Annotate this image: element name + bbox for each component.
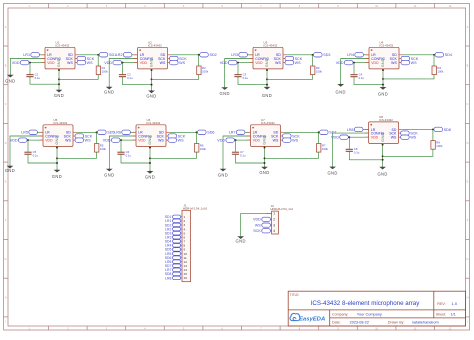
junction SD2 / R2 — [198, 54, 200, 56]
net label SCK (U4) — [401, 56, 419, 61]
svg-text:LR4: LR4 — [347, 53, 354, 57]
wire U4 GND pin to ground — [382, 71, 384, 87]
wire U6 GND pin to ground — [149, 149, 151, 171]
wire R5 to U5 ground stem — [57, 152, 97, 158]
svg-text:HDR-M-2.54_1x16: HDR-M-2.54_1x16 — [183, 207, 207, 211]
svg-text:VDD: VDD — [255, 61, 263, 65]
svg-text:ICS-43432: ICS-43432 — [379, 118, 393, 122]
pin 1 of J1 with net label SD1 — [165, 215, 186, 219]
capacitor C3 0.1u — [234, 63, 248, 80]
junction U8 GND pin — [382, 144, 384, 146]
ground (U8 GND) — [377, 166, 387, 176]
svg-text:GND: GND — [265, 58, 269, 67]
ground (J2 pin 1) — [236, 236, 246, 244]
svg-text:0.1u: 0.1u — [240, 153, 246, 157]
net label LR6 — [114, 130, 130, 135]
wire U2 GND pin to ground — [151, 71, 153, 90]
svg-text:0.1u: 0.1u — [127, 76, 133, 80]
svg-text:WS: WS — [411, 61, 417, 65]
junction ground stem / C6 rail — [149, 162, 151, 164]
svg-text:VDD: VDD — [371, 136, 379, 140]
svg-text:ICS-43432: ICS-43432 — [148, 43, 162, 47]
pin 12 of J1 with net label LR6 — [165, 260, 187, 264]
svg-text:Your Company: Your Company — [357, 313, 382, 317]
svg-text:100k: 100k — [202, 70, 209, 74]
svg-text:WS: WS — [160, 61, 166, 65]
connector J1 HDR-M-2.54_1x16 — [182, 204, 207, 282]
svg-text:16: 16 — [184, 276, 188, 280]
resistor R2 100k — [197, 55, 209, 75]
revision — [437, 301, 458, 306]
svg-text:GND: GND — [146, 94, 156, 99]
svg-text:GND: GND — [104, 89, 114, 94]
svg-text:GND: GND — [336, 89, 346, 94]
net label WS (U6) — [168, 138, 184, 143]
svg-text:GND: GND — [145, 175, 155, 180]
svg-text:LR6: LR6 — [114, 131, 121, 135]
svg-text:100k: 100k — [436, 144, 443, 148]
resistor R6 100k — [195, 132, 207, 152]
op-amp style IC U8 ICS-43432 — [365, 115, 402, 146]
op-amp style IC U2 ICS-43432 — [134, 40, 171, 71]
junction VDD / C7 — [235, 139, 237, 141]
svg-text:WS: WS — [85, 139, 91, 143]
resistor R5 100k — [95, 132, 107, 152]
junction U6 GND pin — [149, 147, 151, 149]
junction SD7 / R7 — [318, 131, 320, 133]
wire R7 to U7 ground stem — [265, 152, 319, 158]
svg-text:VDD: VDD — [220, 61, 228, 65]
wire C8 to ground rail — [349, 151, 382, 160]
junction VDD / C5 — [27, 139, 29, 141]
svg-text:GND: GND — [381, 58, 385, 67]
net label VDD (U2) — [104, 60, 121, 65]
junction ground stem / C4 rail — [382, 84, 384, 86]
svg-text:D: D — [467, 142, 469, 145]
capacitor C4 0.1u — [350, 63, 364, 80]
pin 1 of J2 — [267, 212, 276, 216]
svg-text:WS: WS — [391, 136, 397, 140]
wire R8 to U8 ground stem — [383, 149, 433, 156]
wire U8 SD output — [402, 128, 434, 130]
wire U5 SD output — [77, 131, 98, 133]
svg-text:WS: WS — [178, 139, 184, 143]
wire R6 to U6 ground stem — [150, 152, 197, 158]
svg-text:WS: WS — [87, 61, 93, 65]
net label SD6 — [198, 130, 215, 135]
wire U6 SD output — [170, 131, 198, 133]
ground (U2 CONFIG) — [104, 86, 114, 94]
date row — [332, 321, 439, 325]
svg-text:VDD: VDD — [371, 61, 379, 65]
op-amp style IC U1 ICS-43432 — [41, 40, 78, 71]
svg-text:VDD: VDD — [138, 139, 146, 143]
svg-text:WS: WS — [255, 224, 261, 228]
junction U5 GND pin — [56, 147, 58, 149]
capacitor C2 0.1u — [119, 63, 133, 80]
svg-text:WS: WS — [410, 136, 416, 140]
wire C2 to ground rail — [123, 77, 152, 85]
net label WS (U8) — [401, 135, 417, 140]
svg-text:GND: GND — [54, 93, 64, 98]
junction ground stem / R6 rail — [149, 157, 151, 159]
op-amp style IC U5 ICS-43432 — [39, 118, 76, 149]
pin 7 of J1 with net label SD4 — [165, 240, 186, 244]
svg-text:2: 2 — [273, 218, 275, 222]
resistor R4 100k — [432, 55, 444, 75]
ground (U3 GND) — [262, 86, 272, 98]
company row — [332, 313, 382, 317]
svg-text:WS: WS — [179, 61, 185, 65]
wire C6 to ground rail — [121, 154, 150, 163]
junction ground stem / C1 rail — [58, 83, 60, 85]
wire LR7 net label to U7 LR pin — [245, 131, 251, 133]
pin 15 of J1 with net label SD8 — [165, 272, 187, 276]
wire LR3 net label to U3 LR pin — [247, 54, 253, 56]
op-amp style IC U4 ICS-43432 — [365, 40, 402, 71]
svg-text:VDD: VDD — [253, 139, 261, 143]
capacitor C5 0.1u — [24, 140, 38, 157]
junction VDD / C8 — [348, 136, 350, 138]
svg-text:WS: WS — [273, 139, 279, 143]
svg-text:VDD: VDD — [47, 61, 55, 65]
svg-text:VDD: VDD — [336, 61, 344, 65]
net label WS (U1) — [77, 60, 93, 65]
svg-text:ICS-43432: ICS-43432 — [261, 121, 275, 125]
svg-text:VDD: VDD — [104, 61, 112, 65]
svg-text:GND: GND — [148, 135, 152, 144]
pin 2 of J1 with net label LR1 — [165, 219, 185, 223]
pin 9 of J1 with net label SD5 — [165, 248, 186, 252]
svg-text:GND: GND — [5, 78, 15, 83]
net label SD4 — [435, 53, 452, 58]
ground (U1 GND) — [54, 89, 64, 98]
wire U8 GND pin to ground — [382, 146, 384, 167]
svg-text:ICS-43432 8-element microphone: ICS-43432 8-element microphone array — [311, 300, 421, 307]
title text — [290, 293, 420, 307]
wire C7 to ground rail — [236, 154, 265, 163]
pin 6 of J1 with net label LR3 — [165, 236, 185, 240]
ground (U7 GND) — [259, 166, 269, 175]
wire LR6 net label to U6 LR pin — [130, 131, 136, 133]
wire C4 to ground rail — [354, 77, 383, 85]
svg-text:GND: GND — [150, 58, 154, 67]
wire VDD net label to U4 VDD pin — [353, 62, 369, 64]
capacitor C8 0.1u — [346, 137, 360, 154]
wire J2 pin 1 to ground — [241, 213, 272, 235]
svg-text:D: D — [5, 142, 7, 145]
ground (U1 CONFIG) — [5, 74, 15, 83]
svg-text:VDD: VDD — [12, 61, 20, 65]
wire VDD net label to U6 VDD pin — [120, 139, 136, 141]
wire LR8 net label to U8 LR pin — [363, 128, 369, 130]
svg-text:GND: GND — [5, 168, 15, 173]
junction U7 GND pin — [264, 147, 266, 149]
wire U4 SD output — [403, 54, 435, 56]
ground (U8 CONFIG) — [327, 166, 337, 175]
svg-text:REV:: REV: — [437, 302, 445, 306]
wire C5 to ground rail — [28, 154, 57, 163]
svg-text:LR8: LR8 — [165, 276, 171, 280]
wire VDD net label to U1 VDD pin — [29, 62, 45, 64]
junction SD4 / R4 — [433, 54, 435, 56]
wire U3 GND pin to ground — [266, 71, 268, 87]
wire U2 CONFIG pin to ground — [109, 59, 137, 87]
net label SCK (U3) — [285, 56, 303, 61]
svg-text:SCK: SCK — [253, 229, 261, 233]
net label LR3 — [231, 53, 247, 58]
svg-text:Company:: Company: — [332, 313, 348, 317]
net label WS (U5) — [75, 138, 91, 143]
net label WS (U3) — [285, 60, 301, 65]
net label SCK (U5) — [75, 134, 93, 139]
svg-text:WS: WS — [292, 139, 298, 143]
wire VDD net label to U7 VDD pin — [235, 139, 251, 141]
wire R2 to U2 ground stem — [152, 75, 199, 80]
junction ground stem / C7 rail — [264, 162, 266, 164]
svg-text:GND: GND — [377, 172, 387, 177]
junction ground stem / R2 rail — [151, 78, 153, 80]
net label VDD (U8) — [331, 135, 348, 140]
svg-text:100k: 100k — [437, 70, 444, 74]
svg-text:GND: GND — [236, 239, 246, 244]
svg-text:GND: GND — [327, 170, 337, 175]
svg-text:1.0: 1.0 — [452, 301, 458, 306]
svg-text:VDD: VDD — [331, 136, 339, 140]
svg-text:100k: 100k — [322, 147, 329, 151]
svg-text:0.1u: 0.1u — [33, 153, 39, 157]
wire U3 SD output — [287, 54, 314, 56]
junction ground stem / C3 rail — [266, 84, 268, 86]
net label SCK (U8) — [401, 131, 419, 136]
wire VDD net label to U3 VDD pin — [237, 62, 253, 64]
ground (U3 CONFIG) — [220, 87, 230, 96]
ground (U5 CONFIG) — [5, 165, 15, 173]
svg-text:VDD: VDD — [103, 139, 111, 143]
net label WS (U2) — [170, 60, 186, 65]
svg-text:LR2: LR2 — [116, 53, 123, 57]
pin 2 of J2 with net label VDD — [253, 217, 275, 222]
wire LR4 net label to U4 LR pin — [363, 54, 369, 56]
net label VDD (U3) — [220, 60, 237, 65]
net label SCK (U7) — [283, 134, 301, 139]
svg-text:VDD: VDD — [45, 139, 53, 143]
pin 16 of J1 with net label LR8 — [165, 276, 187, 280]
svg-text:100k: 100k — [316, 70, 323, 74]
net label LR8 — [347, 127, 363, 132]
ground (U4 GND) — [378, 87, 388, 97]
resistor R3 100k — [311, 55, 323, 75]
wire R1 to U1 ground stem — [59, 75, 98, 80]
sheet row — [436, 313, 456, 317]
svg-text:100k: 100k — [200, 147, 207, 151]
wire U8 CONFIG pin to ground — [333, 133, 369, 167]
junction VDD / C3 — [237, 62, 239, 64]
svg-text:1: 1 — [273, 212, 275, 216]
svg-text:WS: WS — [295, 61, 301, 65]
junction ground stem / C5 rail — [56, 162, 58, 164]
svg-text:GND: GND — [262, 93, 272, 98]
pin 3 of J1 with net label SD2 — [165, 223, 186, 227]
svg-text:G: G — [467, 258, 469, 261]
junction ground stem / R8 rail — [382, 155, 384, 157]
svg-text:100k: 100k — [100, 147, 107, 151]
wire LR5 net label to U5 LR pin — [37, 131, 43, 133]
svg-text:1/1: 1/1 — [451, 313, 456, 317]
junction U3 GND pin — [266, 69, 268, 71]
junction ground stem / R7 rail — [264, 157, 266, 159]
wire LR2 net label to U2 LR pin — [132, 54, 138, 56]
wire C3 to ground rail — [238, 77, 267, 85]
svg-text:H: H — [5, 297, 7, 300]
svg-text:LR5: LR5 — [21, 131, 28, 135]
ground (U5 GND) — [52, 169, 62, 179]
junction SD6 / R6 — [196, 131, 198, 133]
wire U1 GND pin to ground — [58, 71, 60, 90]
net label SD5 — [98, 130, 115, 135]
svg-text:VDD: VDD — [253, 218, 261, 222]
wire U5 GND pin to ground — [56, 149, 58, 170]
pin 4 of J2 with net label SCK — [253, 229, 275, 234]
wire U7 SD output — [284, 131, 319, 133]
net label SCK (U2) — [170, 56, 188, 61]
net label SD3 — [314, 53, 331, 58]
svg-text:GND: GND — [220, 91, 230, 96]
svg-text:SD8: SD8 — [444, 128, 451, 132]
pin 8 of J1 with net label LR4 — [165, 244, 185, 248]
wire VDD net label to U2 VDD pin — [122, 62, 138, 64]
svg-text:ICS-43432: ICS-43432 — [55, 43, 69, 47]
net label SD8 — [434, 127, 451, 132]
svg-text:EasyEDA: EasyEDA — [299, 316, 325, 322]
ground (U7 CONFIG) — [218, 168, 228, 177]
svg-text:GND: GND — [218, 172, 228, 177]
net label LR1 — [23, 53, 39, 58]
svg-text:C: C — [467, 103, 469, 106]
svg-text:H: H — [467, 297, 469, 300]
wire R4 to U4 ground stem — [383, 75, 434, 79]
svg-text:VDD: VDD — [140, 61, 148, 65]
net label VDD (U6) — [103, 138, 120, 143]
op-amp style IC U6 ICS-43432 — [132, 118, 169, 149]
capacitor C1 0.1u — [26, 63, 40, 80]
svg-text:LR1: LR1 — [23, 53, 30, 57]
svg-text:WS: WS — [65, 139, 71, 143]
resistor R7 100k — [317, 132, 329, 152]
net label LR7 — [229, 130, 245, 135]
title block — [288, 291, 465, 326]
svg-text:2023-08-22: 2023-08-22 — [350, 321, 369, 325]
junction U2 GND pin — [151, 69, 153, 71]
pin 4 of J1 with net label LR2 — [165, 227, 185, 231]
net label WS (U7) — [283, 138, 299, 143]
net label SD2 — [200, 53, 217, 58]
svg-text:ICS-43432: ICS-43432 — [146, 121, 160, 125]
svg-text:WS: WS — [275, 61, 281, 65]
svg-text:C: C — [5, 103, 7, 106]
junction VDD / C2 — [122, 62, 124, 64]
wire R3 to U3 ground stem — [267, 75, 313, 80]
wire U3 CONFIG pin to ground — [225, 59, 253, 88]
wire U7 GND pin to ground — [264, 149, 266, 167]
net label SCK (U1) — [77, 56, 95, 61]
svg-text:GND: GND — [259, 170, 269, 175]
junction SD1 / R1 — [97, 54, 99, 56]
op-amp style IC U7 ICS-43432 — [247, 118, 284, 149]
ground (U2 GND) — [146, 90, 156, 99]
svg-text:ICS-43432: ICS-43432 — [53, 121, 67, 125]
svg-text:0.1u: 0.1u — [354, 151, 360, 155]
net label LR4 — [347, 53, 363, 58]
op-amp style IC U3 ICS-43432 — [249, 40, 286, 71]
svg-text:VDD: VDD — [217, 139, 225, 143]
wire U5 CONFIG pin to ground — [10, 136, 43, 166]
svg-text:LR8: LR8 — [347, 128, 354, 132]
pin 13 of J1 with net label SD7 — [165, 264, 187, 268]
pin 11 of J1 with net label SD6 — [165, 256, 187, 260]
net label LR5 — [21, 130, 37, 135]
svg-text:0.1u: 0.1u — [35, 76, 41, 80]
net label VDD (U1) — [12, 60, 29, 65]
EasyEDA logo — [290, 313, 325, 322]
junction ground stem / R5 rail — [56, 157, 58, 159]
junction SD3 / R3 — [312, 54, 314, 56]
connector J2 HDR-M-2.54_1x4 — [270, 204, 293, 234]
svg-text:4: 4 — [273, 229, 275, 233]
svg-text:GND: GND — [381, 133, 385, 142]
capacitor C6 0.1u — [117, 140, 131, 157]
svg-text:WS: WS — [158, 139, 164, 143]
wire VDD net label to U8 VDD pin — [348, 136, 368, 138]
svg-text:GND: GND — [57, 58, 61, 67]
svg-text:GND: GND — [104, 172, 114, 177]
pin 5 of J1 with net label SD3 — [165, 231, 186, 235]
svg-text:ICS-43432: ICS-43432 — [263, 43, 277, 47]
junction VDD / C4 — [353, 62, 355, 64]
svg-text:SD2: SD2 — [210, 53, 217, 57]
svg-text:0.1u: 0.1u — [359, 76, 365, 80]
junction VDD / C6 — [120, 139, 122, 141]
pin 10 of J1 with net label LR5 — [165, 252, 187, 256]
wire LR1 net label to U1 LR pin — [39, 54, 45, 56]
junction ground stem / R3 rail — [266, 78, 268, 80]
svg-text:WS: WS — [67, 61, 73, 65]
svg-text:GND: GND — [55, 135, 59, 144]
capacitor C7 0.1u — [232, 140, 246, 157]
ground (U6 CONFIG) — [104, 168, 114, 177]
resistor R1 100k — [96, 55, 108, 75]
svg-text:ICS-43432: ICS-43432 — [379, 43, 393, 47]
svg-text:VDD: VDD — [10, 139, 18, 143]
net label VDD (U7) — [217, 138, 234, 143]
net label SD7 — [320, 130, 337, 135]
ground (U6 GND) — [145, 171, 155, 180]
wire U4 CONFIG pin to ground — [341, 59, 369, 85]
net label LR2 — [116, 53, 132, 58]
pin 3 of J2 with net label WS — [255, 223, 275, 228]
svg-text:Drawn By:: Drawn By: — [388, 321, 405, 325]
svg-text:nataliehanekom: nataliehanekom — [412, 321, 439, 325]
svg-text:SD3: SD3 — [323, 53, 330, 57]
pin 14 of J1 with net label LR7 — [165, 268, 187, 272]
svg-text:G: G — [5, 258, 7, 261]
svg-text:LR3: LR3 — [231, 53, 238, 57]
svg-text:WS: WS — [391, 61, 397, 65]
svg-text:Sheet:: Sheet: — [436, 313, 446, 317]
svg-text:TITLE:: TITLE: — [290, 293, 300, 297]
net label VDD (U4) — [336, 60, 353, 65]
junction U1 GND pin — [58, 69, 60, 71]
